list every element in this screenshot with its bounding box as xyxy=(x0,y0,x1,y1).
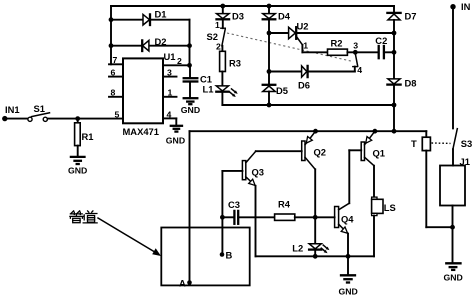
diode D6 xyxy=(267,66,355,91)
svg-text:B: B xyxy=(226,250,233,261)
relay J1 xyxy=(440,156,470,227)
capacitor C2 xyxy=(355,35,394,58)
box pipe xyxy=(161,228,249,286)
svg-text:4: 4 xyxy=(357,65,362,75)
pin 6 xyxy=(109,68,123,78)
svg-text:1: 1 xyxy=(168,88,173,98)
svg-text:R1: R1 xyxy=(82,131,94,142)
node C2 right xyxy=(392,50,397,55)
svg-text:GND: GND xyxy=(68,166,87,176)
transistor Q1 xyxy=(349,131,385,203)
svg-text:GND: GND xyxy=(339,287,358,297)
diode D1 xyxy=(109,8,190,25)
svg-text:1: 1 xyxy=(303,40,308,50)
wire IN down xyxy=(452,7,454,129)
svg-text:LS: LS xyxy=(384,202,396,213)
switch S3 xyxy=(453,129,472,150)
node J1/T xyxy=(450,225,455,230)
wire left bus xyxy=(110,6,112,64)
svg-text:R3: R3 xyxy=(229,57,241,68)
transistor Q3 xyxy=(222,151,264,256)
svg-text:D2: D2 xyxy=(155,36,167,47)
wire T to GND node xyxy=(426,226,452,228)
pin 3 xyxy=(163,68,177,78)
wire xyxy=(6,118,28,120)
resistor R2 xyxy=(302,37,355,55)
wire xyxy=(48,118,124,120)
ground right xyxy=(444,227,463,282)
node D3 top xyxy=(220,4,225,9)
svg-text:Q1: Q1 xyxy=(373,148,386,159)
pin 8 xyxy=(109,88,123,98)
switch S2 xyxy=(207,20,226,52)
resistor R3 xyxy=(220,46,241,86)
svg-text:Q4: Q4 xyxy=(341,214,354,225)
wire bottom bus xyxy=(256,255,375,257)
svg-text:8: 8 xyxy=(111,88,116,98)
ground below C1 xyxy=(181,98,200,115)
svg-text:S2: S2 xyxy=(207,31,218,42)
resistor R4 xyxy=(275,199,316,221)
pin 1 xyxy=(163,88,177,98)
LED L2 xyxy=(292,217,329,256)
svg-text:GND: GND xyxy=(181,105,200,115)
svg-text:3: 3 xyxy=(353,40,358,50)
diode D2 xyxy=(109,36,192,51)
LED L1 xyxy=(216,86,237,105)
svg-text:7: 7 xyxy=(113,55,118,65)
svg-text:D5: D5 xyxy=(276,85,288,96)
arrow pipe pointer xyxy=(98,218,161,256)
svg-text:R2: R2 xyxy=(331,37,343,48)
svg-text:C3: C3 xyxy=(228,199,240,210)
node B xyxy=(220,252,225,257)
node 3 xyxy=(353,50,358,55)
svg-text:4: 4 xyxy=(167,109,172,119)
mechanical link S3 dashed xyxy=(432,142,451,144)
svg-text:2: 2 xyxy=(216,42,221,52)
node C3 xyxy=(220,215,225,220)
svg-text:IN: IN xyxy=(461,1,471,12)
capacitor C3 xyxy=(222,199,274,224)
node bus/right column xyxy=(392,103,397,108)
ground below R1 xyxy=(68,157,87,176)
thyristor U2 xyxy=(269,21,394,53)
svg-text:D7: D7 xyxy=(405,11,417,22)
svg-text:GND: GND xyxy=(444,273,463,283)
svg-text:U2: U2 xyxy=(297,21,309,32)
svg-text:5: 5 xyxy=(115,109,120,119)
svg-text:S3: S3 xyxy=(461,138,472,149)
svg-text:D3: D3 xyxy=(232,11,244,22)
node L2 bottom xyxy=(313,254,318,259)
label pipe (guandao) xyxy=(70,211,97,223)
diode D8 xyxy=(387,78,416,132)
switch S1 xyxy=(28,103,50,121)
pin 7 xyxy=(109,55,123,65)
node U2 cathode bus xyxy=(392,31,397,36)
transistor Q2 xyxy=(256,131,326,217)
svg-text:1: 1 xyxy=(215,20,220,30)
resistor R1 xyxy=(75,119,94,157)
wire middle bus xyxy=(190,130,427,132)
svg-text:R4: R4 xyxy=(278,199,291,210)
pin 5 xyxy=(115,109,120,119)
pin 4 xyxy=(163,109,176,126)
svg-text:A: A xyxy=(179,278,186,289)
speaker LS xyxy=(372,197,396,256)
svg-text:MAX471: MAX471 xyxy=(123,126,159,137)
node R1 top xyxy=(75,116,80,121)
node pin2 xyxy=(187,63,192,68)
node IN xyxy=(450,4,455,9)
diode D5 xyxy=(263,85,288,105)
node D5 bottom xyxy=(267,103,272,108)
node Q1 emitter xyxy=(373,129,378,134)
node GND junction xyxy=(346,254,351,259)
wire top bus xyxy=(111,5,394,7)
IC U1 MAX471 xyxy=(123,51,176,137)
svg-text:D8: D8 xyxy=(405,78,417,89)
transistor Q4 xyxy=(315,203,354,256)
wire D1/D2 to pin 2 xyxy=(189,20,191,66)
node A xyxy=(187,280,192,285)
ground at pin 4 xyxy=(166,126,185,146)
diode D3 xyxy=(217,6,244,28)
node IN1 xyxy=(2,116,7,121)
svg-text:U1: U1 xyxy=(164,51,176,62)
wire bottom bus of top section xyxy=(222,104,394,106)
svg-text:L2: L2 xyxy=(292,243,303,254)
svg-text:D4: D4 xyxy=(278,11,291,22)
node R4/Q2 xyxy=(313,215,318,220)
diode D4 xyxy=(263,6,291,85)
svg-text:L1: L1 xyxy=(203,84,214,95)
transformer T xyxy=(411,131,430,227)
pin 2 xyxy=(163,56,190,66)
svg-text:2: 2 xyxy=(177,56,182,66)
capacitor C1 xyxy=(184,65,212,98)
wire S3 to J1 xyxy=(452,149,454,165)
node Q2 emitter xyxy=(313,129,318,134)
svg-text:D1: D1 xyxy=(155,8,167,19)
svg-text:C2: C2 xyxy=(375,35,387,46)
svg-text:GND: GND xyxy=(166,136,185,146)
svg-text:D6: D6 xyxy=(298,80,310,91)
svg-text:Q3: Q3 xyxy=(252,167,265,178)
svg-text:3: 3 xyxy=(167,68,172,78)
diode D7 xyxy=(387,6,416,79)
wire Q3 base down xyxy=(221,171,223,255)
ground bottom xyxy=(339,256,358,296)
mechanical link S2 dashed xyxy=(227,33,353,62)
svg-text:Q2: Q2 xyxy=(314,147,327,158)
svg-text:6: 6 xyxy=(111,68,116,78)
svg-text:S1: S1 xyxy=(34,103,45,114)
node D4 top xyxy=(267,4,272,9)
svg-text:J1: J1 xyxy=(460,156,470,167)
switch S2b contacts 3-4 xyxy=(353,40,362,75)
node U2 anode xyxy=(267,31,272,36)
wire down to A xyxy=(189,131,191,282)
svg-text:T: T xyxy=(411,138,417,149)
svg-text:IN1: IN1 xyxy=(5,104,20,115)
